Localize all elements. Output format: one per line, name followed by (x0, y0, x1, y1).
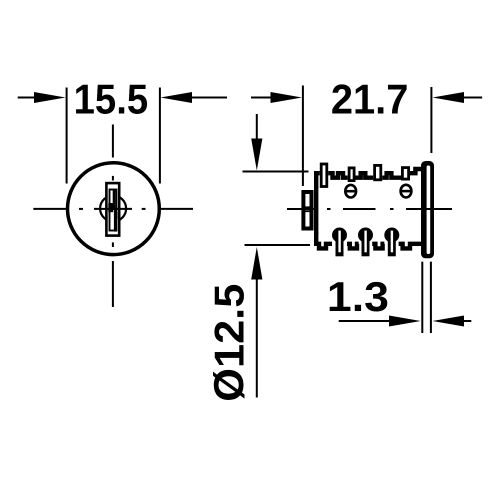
front view vertical centerline (112, 125, 114, 308)
svg-text:Ø12.5: Ø12.5 (206, 284, 253, 402)
dimension 15.5 right arrow (161, 92, 193, 103)
svg-text:15.5: 15.5 (74, 76, 149, 123)
top tab 1 (321, 164, 327, 187)
diameter lower arrow (pointing up) (251, 247, 262, 280)
side view horizontal centerline (287, 208, 452, 210)
key profile left notch (108, 203, 113, 212)
bottom pin 2 (358, 228, 373, 257)
key profile right notch (115, 212, 118, 219)
dimension 1.3 right arrow (432, 316, 464, 327)
dimension 21.7 right extension line (430, 87, 432, 153)
key profile lower center bar (114, 210, 117, 232)
cam (left lug) (303, 192, 311, 229)
cam inner line lower (304, 210, 312, 212)
dimension 15.5 right extension line (159, 88, 161, 184)
flange (rounded end plate) (421, 161, 434, 258)
bottom pin 3 (384, 228, 399, 257)
dimension 1.3 left arrow (339, 320, 390, 322)
svg-text:21.7: 21.7 (331, 76, 409, 123)
cam inner line upper (304, 206, 312, 208)
top tab 3 (375, 165, 381, 179)
top tab 2 (349, 168, 354, 181)
dimension 21.7 right arrow (433, 92, 465, 103)
front view outer circle (cylinder face) (68, 163, 160, 255)
bottom pin 1 (332, 228, 347, 257)
dimension 21.7 left extension line (302, 86, 304, 187)
top tab 4 (402, 168, 408, 180)
dimension 15.5 left extension line (66, 88, 68, 184)
keyhole inner rectangle (110, 190, 117, 231)
diameter lower reference line (245, 244, 311, 246)
body left edge over cam (314, 186, 318, 234)
diameter upper reference line (243, 171, 309, 173)
front view middle circle (plug) (100, 196, 126, 222)
key profile upper center bar (113, 190, 116, 210)
slotted pin head right (theta symbol) (401, 185, 412, 198)
cylinder body castellated outline (316, 169, 423, 248)
flange left extension line (421, 262, 423, 333)
keyhole outer rectangle (106, 183, 119, 236)
svg-text:1.3: 1.3 (327, 273, 389, 320)
flange right extension line (430, 262, 432, 333)
dimension 15.5 left arrow (18, 97, 36, 99)
diameter upper arrow (pointing down) (256, 114, 258, 140)
front view horizontal centerline (33, 208, 193, 210)
dimension 21.7 left arrow (251, 97, 272, 99)
slotted pin head left (theta symbol) (345, 185, 356, 198)
